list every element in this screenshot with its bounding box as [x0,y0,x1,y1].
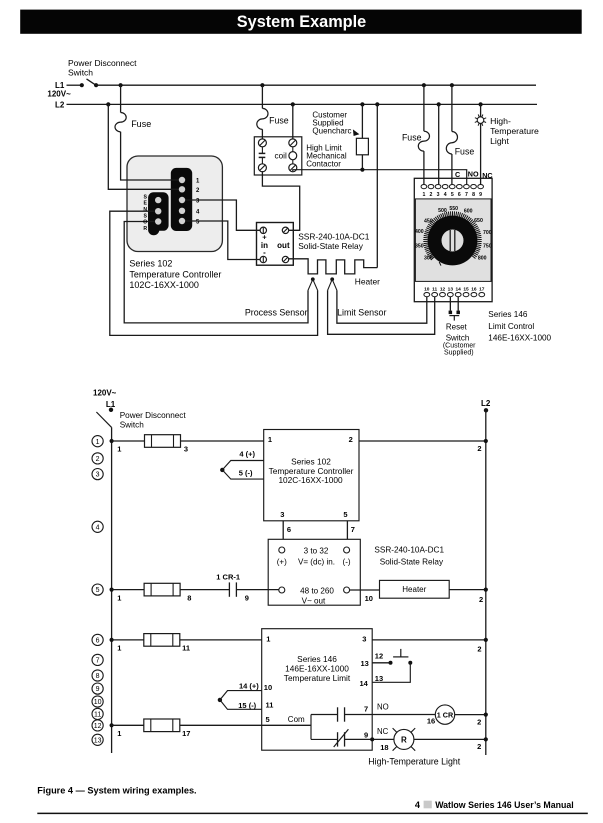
high limit mechanical contactor K1 box [254,137,301,175]
svg-text:10: 10 [365,594,373,603]
wire L2 to contactor coil terminal [292,104,294,139]
relay contact 1CR-1 [228,582,230,596]
svg-text:450: 450 [424,218,433,224]
SSR input terminal - (ladder) [344,547,350,553]
high-temperature light DS1 (ladder) [394,729,414,749]
svg-text:750: 750 [483,243,492,249]
limit sensor TC2 right leg to terminal 10 [337,290,427,323]
svg-text:Solid-State Relay: Solid-State Relay [380,557,444,566]
wire CR coil to right rail [455,714,486,716]
wire rung1 to controller [181,440,264,442]
controller U1 terminal 1 [179,177,185,183]
svg-text:Contactor: Contactor [306,159,341,168]
wire rung5 left [112,589,145,591]
wire light to right rail [414,738,486,740]
svg-text:2: 2 [477,645,481,654]
junction switch right terminal [94,83,98,87]
wire F1 to controller pin 1 [121,132,179,180]
svg-text:Quencharc: Quencharc [312,126,351,135]
svg-text:N: N [143,207,147,213]
svg-text:350: 350 [415,243,424,249]
svg-text:15: 15 [463,286,469,292]
quencharc pointer arrow [353,129,360,136]
svg-text:(-): (-) [343,557,351,566]
svg-text:1: 1 [117,729,121,738]
svg-text:SSR-240-10A-DC1: SSR-240-10A-DC1 [298,232,370,242]
svg-text:6: 6 [287,525,291,534]
svg-text:10: 10 [94,699,102,706]
temperature controller box (ladder) Series 102 [264,430,359,521]
wire L2 to controller pin 2 [108,104,179,189]
svg-text:1: 1 [117,593,121,602]
svg-text:12: 12 [440,286,446,292]
svg-text:5: 5 [96,587,100,594]
svg-text:Power Disconnect: Power Disconnect [120,411,187,420]
svg-text:Series 146: Series 146 [488,310,528,319]
header title bar [20,10,582,34]
svg-text:5: 5 [451,192,454,198]
svg-text:V= (dc) in.: V= (dc) in. [298,557,335,566]
svg-text:NC: NC [377,727,389,736]
svg-text:11: 11 [182,644,190,653]
wire terminal 13 to reset switch [449,297,451,311]
svg-text:Fuse: Fuse [402,133,422,143]
wire CR-1 to SSR output [237,589,279,591]
dial center with slot [442,230,464,252]
wire fuse to CR-1 contact [180,589,229,591]
svg-text:1: 1 [422,192,425,198]
svg-text:Supplied): Supplied) [444,350,474,357]
limit sensor thermocouple TC2 arrow [330,277,334,281]
controller U1 terminal 3 [179,197,185,203]
contactor K1 NO contact symbol [261,147,263,153]
svg-text:8: 8 [96,673,100,680]
svg-text:1: 1 [266,634,270,643]
wire fuse to limit control [180,639,262,641]
svg-text:14: 14 [456,286,462,292]
svg-text:10: 10 [264,683,272,692]
junction L1/fuse F4 [450,83,454,87]
svg-text:102C-16XX-1000: 102C-16XX-1000 [129,280,199,290]
contactor K1 screw terminal top-right [289,139,297,147]
svg-text:L2: L2 [481,399,491,408]
svg-text:15 (-): 15 (-) [238,701,256,710]
junction L2/high-temperature light [479,102,483,106]
sensor terminal middle [155,208,161,214]
svg-text:146E-16XX-1000: 146E-16XX-1000 [488,334,551,343]
svg-text:Switch: Switch [446,333,470,342]
svg-text:7: 7 [351,525,355,534]
svg-text:Temperature Limit: Temperature Limit [284,673,351,683]
svg-text:2: 2 [477,742,481,751]
thermocouple TC1 wires 4/5 [222,461,263,480]
heater element R-H (top square wave) [289,259,378,274]
junction L2/contactor coil [291,102,295,106]
dial tick marks [423,211,481,260]
wire contactor coil to limit control terminal 7 [293,170,467,185]
fuse F1 (controller supply) [115,113,126,132]
svg-text:(Customer: (Customer [443,343,476,350]
svg-text:Switch: Switch [120,421,145,430]
wire controller pin3 to SSR pin6 [282,521,284,540]
svg-text:E: E [143,201,147,207]
limit control U3 dial panel [415,199,491,282]
process sensor TC1 left leg [124,222,308,323]
svg-text:Limit Sensor: Limit Sensor [337,308,386,318]
svg-text:9: 9 [96,686,100,693]
wire heater return to L2 [376,104,378,267]
svg-text:3: 3 [437,192,440,198]
wire F4 to terminal 5 [451,154,453,184]
process sensor TC1 right leg [110,211,318,335]
wire terminal 14 to reset switch [457,297,459,311]
wire L1 to fuse F2 [261,85,263,108]
fuse F5 (rung1) [145,435,181,448]
SSR output terminal right (ladder) [344,587,350,593]
junction right rail rung11 [484,713,488,717]
wire L1 to fuse F4 [451,85,453,131]
footer rule [37,812,588,814]
SSR input terminal + (ladder) [279,547,285,553]
svg-text:5: 5 [266,715,270,724]
wire L1 to fuse F1 [120,85,122,112]
junction rail/rung6 [110,638,114,642]
wire SSR output to heater [350,589,380,591]
junction rail/rung1 [110,439,114,443]
wire heater to right rail [449,589,486,591]
svg-text:8: 8 [472,192,475,198]
wire controller pin 5 to SSR in- [185,221,260,260]
svg-text:2: 2 [349,435,353,444]
svg-text:Process Sensor: Process Sensor [245,308,308,318]
svg-text:14 (+): 14 (+) [239,682,259,691]
svg-text:Temperature Controller: Temperature Controller [129,269,221,279]
svg-text:L1: L1 [106,400,116,409]
reset switch S2 contacts [449,311,453,315]
L2 terminal dot (ladder) [484,408,488,412]
svg-text:12: 12 [94,723,102,730]
svg-text:1: 1 [117,444,121,453]
Com branch vertical [310,715,312,740]
svg-text:13: 13 [448,286,454,292]
wire controller pin5 to SSR pin7 [346,521,348,540]
junction right rail rung6 [484,638,488,642]
right rail (ladder) [485,410,487,755]
reset pushbutton actuator [393,656,408,658]
wire light to terminal 9 [480,123,482,184]
controller U1 terminal 4 [179,208,185,214]
junction L1 switch terminal [80,83,84,87]
left rail (ladder) [111,427,113,753]
svg-text:Watlow Series 146 User’s Manua: Watlow Series 146 User’s Manual [435,800,574,810]
fuse F7 (rung6) [144,634,180,647]
Com branch to NO contact [311,714,338,716]
svg-text:1 CR-1: 1 CR-1 [216,573,240,582]
svg-text:Reset: Reset [446,322,468,331]
fuse F8 (rung12) [144,719,180,732]
heater load box (ladder) [380,580,450,598]
wire L1 to fuse F3 [423,85,425,131]
svg-text:5: 5 [343,510,347,519]
svg-text:400: 400 [415,229,424,235]
junction right rail rung5 [484,588,488,592]
svg-text:300: 300 [424,256,433,262]
contactor K1 screw terminal bottom-left [258,164,266,172]
junction NC wire at box edge [370,737,374,741]
wire F2 to contactor terminal [261,129,263,139]
svg-text:102C-16XX-1000: 102C-16XX-1000 [278,475,343,485]
svg-text:7: 7 [465,192,468,198]
Com branch to NC contact [311,738,338,740]
reset switch S2 actuator [449,315,459,317]
svg-text:48 to 260: 48 to 260 [300,586,334,595]
svg-text:800: 800 [478,256,487,262]
svg-text:2: 2 [430,192,433,198]
reset pushbutton right contact [408,661,412,665]
svg-text:SSR-240-10A-DC1: SSR-240-10A-DC1 [374,546,444,555]
process sensor thermocouple TC1 arrow [311,277,315,281]
junction L1/fuse F2 [260,83,264,87]
svg-text:4: 4 [444,192,447,198]
svg-text:1: 1 [268,435,272,444]
svg-text:Limit Control: Limit Control [488,322,534,331]
svg-text:7: 7 [364,704,368,713]
limit NO contact (pin 7) [337,707,339,721]
svg-text:3 to 32: 3 to 32 [304,546,329,555]
footer separator square [424,801,432,809]
svg-text:2: 2 [96,456,100,463]
wire rung1 left [112,440,145,442]
svg-text:R: R [143,226,147,232]
junction L2 to terminal 3 [437,102,441,106]
svg-text:17: 17 [182,729,190,738]
dial end-stop tick [439,262,441,266]
svg-text:Heater: Heater [355,276,380,286]
svg-text:coil: coil [275,152,287,161]
svg-text:Figure 4 — System wiring examp: Figure 4 — System wiring examples. [37,786,196,796]
fuse F6 (rung5) [144,583,180,596]
temperature limit box (ladder) Series 146 [262,629,373,751]
svg-text:Fuse: Fuse [455,146,475,156]
svg-text:Power Disconnect: Power Disconnect [68,58,137,68]
thermocouple TC2 wires 14/15 [220,691,262,710]
svg-text:6: 6 [96,638,100,645]
junction rail/rung5 [110,588,114,592]
svg-text:Switch: Switch [68,67,93,77]
svg-text:700: 700 [483,230,492,236]
svg-text:NO: NO [377,702,389,711]
svg-text:V~ out: V~ out [302,596,326,605]
svg-text:1: 1 [96,439,100,446]
svg-text:Series 102: Series 102 [129,258,172,268]
wire NC contact to light [345,738,394,740]
svg-text:11: 11 [432,286,437,292]
fuse F3 (limit control) [418,131,429,151]
line number circles 1-13 [92,436,103,447]
svg-text:9: 9 [479,192,482,198]
limit control top terminal strip terminals 1-9 [421,184,427,188]
svg-text:120V~: 120V~ [93,388,117,397]
svg-text:4: 4 [96,524,100,531]
quencharc component C1 [356,138,368,155]
wire pushbutton to pin 14 [372,663,410,683]
solid-state relay U2 box (top) [257,223,294,266]
fuse F2 (contactor supply) [257,108,268,129]
wire limit pin3 to right rail [372,639,486,641]
wire NO contact to CR coil [345,714,436,716]
controller U1 output connector block [171,168,192,231]
junction L1/fuse F3 [422,83,426,87]
svg-text:9: 9 [245,593,249,602]
svg-text:600: 600 [464,208,473,214]
NC contact slash [334,729,349,747]
L1 terminal dot (ladder) [109,408,113,412]
svg-text:3: 3 [362,634,366,643]
svg-text:3: 3 [280,510,284,519]
contactor K1 screw terminal top-left [258,139,266,147]
wire L2 to light [480,104,482,116]
svg-text:18: 18 [380,743,388,752]
svg-text:8: 8 [187,593,191,602]
svg-text:L2: L2 [55,101,65,110]
SSR U2 screw terminal in- [260,256,266,262]
limit sensor TC2 left leg to terminal 11 [328,290,435,334]
svg-text:-: - [263,248,266,257]
svg-text:500: 500 [438,208,447,214]
svg-text:out: out [277,241,290,250]
sensor terminal bottom [155,218,161,224]
svg-text:NC: NC [482,171,492,180]
svg-text:S: S [143,213,147,219]
svg-text:146E-16XX-1000: 146E-16XX-1000 [285,664,349,674]
svg-text:6: 6 [458,192,461,198]
svg-text:14: 14 [359,679,368,688]
limit control U3 Series 146 body [414,178,492,301]
junction right rail rung1 [484,439,488,443]
junction right rail rung12 [484,737,488,741]
wire L2 to terminal 3 [438,104,440,184]
contactor K1 screw terminal bottom-right [289,164,297,172]
junction rail/rung12 [110,723,114,727]
svg-text:S: S [143,194,147,200]
junction quencharc/coil wire [360,168,364,172]
SSR U2 screw terminal out-bottom [282,256,288,262]
svg-text:5 (-): 5 (-) [239,469,253,478]
svg-text:3: 3 [184,444,188,453]
thermocouple input TC2 (ladder) point [218,698,222,702]
wire rung6 left [112,639,144,641]
svg-text:High-Temperature Light: High-Temperature Light [368,757,460,767]
svg-text:9: 9 [364,731,368,740]
sensor terminal N [155,197,161,203]
svg-text:Fuse: Fuse [269,116,289,126]
junction L2 drop to controller pin 2 [106,102,110,106]
svg-text:11: 11 [94,712,101,719]
wire fuse to Com [180,724,311,726]
svg-text:650: 650 [474,218,483,224]
contactor K1 coil symbol [292,147,294,151]
wire controller pin2 to right rail [359,440,486,442]
svg-text:High-: High- [490,116,511,126]
wire F3 to terminal 1 [423,151,425,184]
junction L2/heater return [375,102,379,106]
svg-text:R: R [401,736,407,745]
svg-text:12: 12 [375,651,383,660]
controller U1 terminal 2 [179,186,185,192]
relay coil 1CR [435,705,454,724]
temperature controller U1 Series 102 body [127,156,222,252]
controller U1 sensor connector block [148,192,169,231]
solid-state relay box (ladder) [268,539,360,605]
svg-text:13: 13 [94,737,102,744]
svg-text:2: 2 [477,444,481,453]
svg-text:120V~: 120V~ [47,89,71,98]
wire controller pin 3 to SSR in+ [185,200,260,230]
high-temperature light DS1 (top) [477,117,484,124]
disconnect switch blade S1 (top) [87,79,97,86]
limit control bottom terminals 10-17 [424,292,430,296]
reset pushbutton left contact [389,661,393,665]
svg-text:13: 13 [375,674,383,683]
svg-text:13: 13 [360,659,368,668]
svg-text:O: O [143,220,147,226]
svg-text:System Example: System Example [237,13,366,31]
svg-text:Light: Light [490,136,509,146]
svg-text:Temperature: Temperature [490,126,539,136]
wire L1 bus (top) [96,84,536,86]
controller U1 terminal 5 [179,218,185,224]
fuse F4 (limit control) [446,132,457,155]
svg-text:Fuse: Fuse [131,119,151,129]
svg-text:10: 10 [424,286,430,292]
svg-text:1 CR: 1 CR [437,710,454,719]
svg-text:2: 2 [479,595,483,604]
wire contactor bottom-left to SSR out (top) [262,171,299,230]
svg-text:7: 7 [96,658,100,665]
wire quencharc drop from L2 [360,102,364,106]
svg-text:2: 2 [477,717,481,726]
wire L2 bus (top) [67,103,538,105]
svg-text:16: 16 [471,286,477,292]
svg-text:11: 11 [266,700,274,709]
svg-text:4: 4 [415,800,421,810]
thermocouple input TC1 (ladder) point [220,468,224,472]
svg-text:Solid-State Relay: Solid-State Relay [298,241,364,251]
limit NC contact (pin 9) [337,732,339,746]
SSR output terminal left (ladder) [279,587,285,593]
svg-text:Heater: Heater [402,585,426,594]
wire L1 stub to switch [67,84,82,86]
svg-text:(+): (+) [277,557,287,566]
dial outer black ring [428,216,478,266]
disconnect switch blade (ladder) [96,412,111,427]
svg-text:16: 16 [427,716,435,725]
svg-text:4 (+): 4 (+) [239,450,255,459]
svg-text:NO: NO [468,170,479,179]
SSR U2 screw terminal in+ [260,227,266,233]
svg-text:1: 1 [117,644,121,653]
svg-text:Com: Com [288,715,305,724]
svg-text:C: C [455,170,460,179]
SSR U2 screw terminal out-top [282,227,288,233]
svg-text:3: 3 [96,472,100,479]
wire rung12 left [112,724,144,726]
junction L1/fuse F1 [119,83,123,87]
svg-text:550: 550 [449,206,458,212]
svg-text:17: 17 [479,286,485,292]
